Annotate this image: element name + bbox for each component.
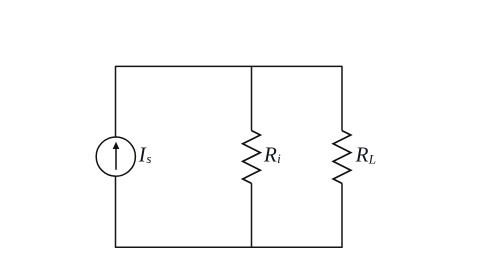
wire left-bottom: [115, 176, 117, 248]
resistor RL zigzag: [333, 131, 351, 184]
svg-text:RL: RL: [355, 143, 376, 167]
wire middle-top: [251, 67, 253, 131]
wire right-bottom: [341, 183, 343, 248]
wire top: [116, 65, 343, 67]
wire right-top: [341, 66, 343, 131]
current source Is circle: [96, 137, 135, 176]
current source Is arrow: [113, 142, 120, 170]
wire left-top: [115, 66, 117, 137]
wire bottom: [116, 246, 343, 248]
svg-text:Is: Is: [138, 143, 152, 167]
wire middle-bottom: [251, 183, 253, 247]
svg-text:Ri: Ri: [263, 143, 281, 167]
resistor Ri zigzag: [243, 131, 261, 184]
